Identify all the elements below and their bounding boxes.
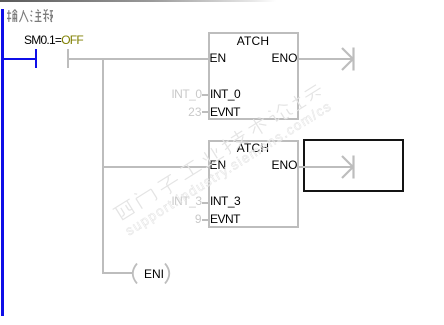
wire U2 ENO output: [299, 166, 353, 168]
network separator line: [0, 0, 276, 2]
子: [157, 172, 182, 196]
wire U1 ENO output: [299, 58, 353, 60]
工: [178, 158, 201, 179]
论: [266, 100, 293, 125]
U2 pin EVNT: [210, 213, 240, 225]
wire rung1 blue segment: [3, 58, 35, 60]
U2 operand hint INT_3: [142, 195, 202, 207]
U2 pin stub EVNT: [202, 219, 209, 221]
function block U1 ATCH box: [208, 32, 299, 121]
coil ENI parentheses: [124, 261, 178, 287]
技: [219, 127, 249, 154]
operand label SM0.1=OFF: [24, 34, 83, 46]
contact SM0.1 right leg: [67, 49, 69, 69]
U2 pin ENO: [240, 159, 298, 171]
U2 title ATCH: [208, 142, 299, 154]
arrow open branch 1: [339, 45, 357, 73]
术: [246, 114, 270, 138]
network comment 输入注释 (drawn strokes): [7, 9, 53, 26]
业: [199, 144, 224, 167]
wire to coil ENI: [104, 272, 132, 274]
watermark line1 西门子工业技术论坛 (drawn strokes) + line2: [111, 69, 351, 238]
U1 pin stub EVNT: [202, 111, 209, 113]
wire rung1 gray segment to block ATCH1: [69, 58, 210, 60]
门: [133, 184, 157, 208]
coil ENI label: [144, 268, 164, 280]
arrow open branch 2: [339, 153, 357, 181]
U2 operand hint 9: [142, 213, 202, 225]
contact SM0.1 left leg (blue): [35, 49, 37, 69]
function block U2 ATCH box: [208, 140, 299, 229]
U1 operand hint 23: [142, 106, 202, 118]
left power rail (blue): [1, 9, 4, 316]
坛: [289, 81, 324, 110]
U1 operand hint INT_0: [142, 88, 202, 100]
U2 pin EN: [210, 159, 227, 171]
U1 pin EN: [210, 52, 227, 64]
wire branch vertical: [102, 58, 104, 274]
U1 title ATCH: [208, 35, 299, 47]
U1 pin EVNT: [210, 106, 240, 118]
U1 pin INT_0: [210, 88, 240, 100]
U2 pin stub INT: [202, 202, 209, 204]
U1 pin stub INT: [202, 94, 209, 96]
U1 pin ENO: [240, 52, 298, 64]
wire rung2 from branch to block ATCH2: [104, 166, 208, 168]
selection cursor rectangle: [303, 139, 404, 192]
西: [113, 198, 137, 221]
U2 pin INT_3: [210, 195, 240, 207]
